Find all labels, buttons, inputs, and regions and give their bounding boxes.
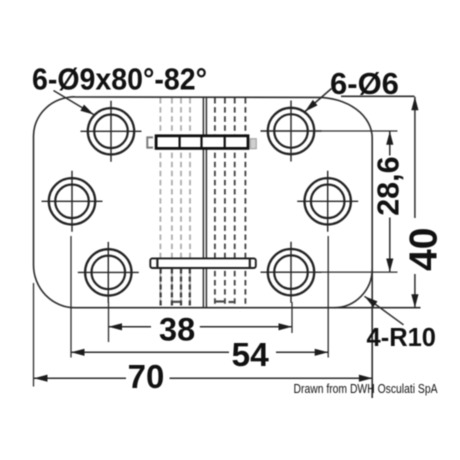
svg-text:Drawn from DWH Osculati SpA: Drawn from DWH Osculati SpA — [294, 381, 438, 396]
svg-text:70: 70 — [128, 358, 165, 395]
svg-text:4-R10: 4-R10 — [367, 324, 437, 352]
svg-text:28,6: 28,6 — [372, 156, 406, 215]
svg-text:40: 40 — [403, 228, 446, 271]
svg-text:38: 38 — [159, 312, 195, 348]
svg-text:6-Ø9x80°-82°: 6-Ø9x80°-82° — [32, 61, 207, 96]
svg-text:6-Ø6: 6-Ø6 — [330, 66, 399, 101]
svg-text:54: 54 — [232, 337, 270, 374]
